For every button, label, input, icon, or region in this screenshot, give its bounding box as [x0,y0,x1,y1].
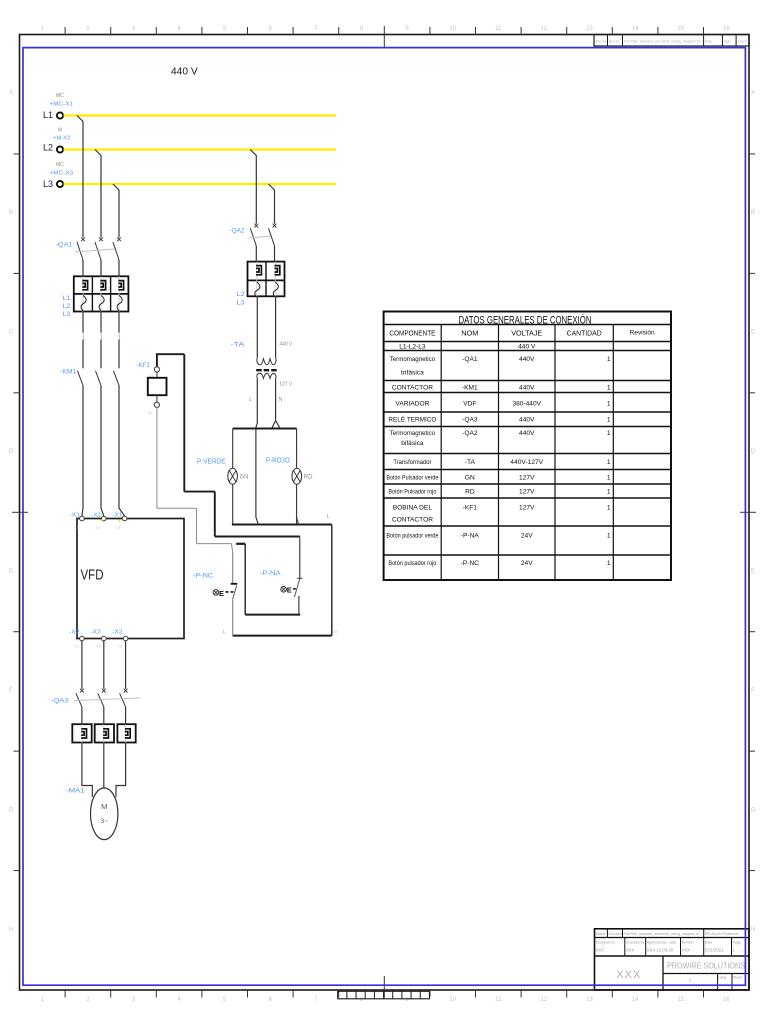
wire QA3 lever to thermal box [81,707,83,724]
svg-text:T2: T2 [96,644,101,649]
wire jog marker [82,333,85,340]
svg-text:C: C [751,330,756,336]
svg-text:1: 1 [607,459,611,466]
wire KF1 circuit: vertical x=184.3 [183,354,185,491]
svg-text:Date: Date [705,941,712,945]
svg-text:File/Title_samples_electrical_: File/Title_samples_electrical_wiring_dia… [624,932,700,936]
svg-text:N: N [334,629,337,634]
svg-text:H: H [9,927,13,933]
svg-text:-QA3: -QA3 [51,698,69,705]
svg-text:E: E [751,568,755,574]
svg-text:RELÉ TERMICO: RELÉ TERMICO [388,415,436,424]
QA2 thermal glyph [273,282,278,297]
svg-text:-X1: -X1 [70,513,81,519]
svg-text:MC: MC [56,162,64,168]
svg-text:E: E [287,586,292,595]
svg-text:C: C [9,330,14,336]
svg-text:5/31/2021: 5/31/2021 [705,948,724,953]
wire QA3 lever to thermal box [125,707,127,724]
svg-text:3~: 3~ [100,818,108,825]
svg-text:-X2: -X2 [90,630,101,636]
wire drop L2 to QA2 pole1 [250,150,256,224]
svg-text:L1-L2-L3: L1-L2-L3 [399,343,426,350]
QA3 lever [98,693,104,707]
svg-text:127 V: 127 V [279,382,293,388]
svg-text:PROWIRE SOLUTIONS: PROWIRE SOLUTIONS [667,962,745,971]
svg-text:RD: RD [465,488,475,495]
wire P-NA bottom terminal [298,596,300,615]
wire KM1 to VFD terminal [119,386,125,517]
wire drop L2 to QA1 pole2 [95,150,101,238]
svg-text:1: 1 [607,384,611,391]
terminal circle L2 [57,146,63,152]
bus wire L2 (yellow) [64,148,337,150]
svg-text:Rev-No: Rev-No [596,40,608,44]
svg-text:L: L [327,514,330,520]
svg-text:+MC-X1: +MC-X1 [50,102,74,108]
svg-text:trifásica: trifásica [401,370,424,377]
svg-text:VARIADOR: VARIADOR [395,400,429,407]
breaker QA1 lever [95,242,101,260]
svg-text:G: G [9,807,14,813]
svg-text:XXX: XXX [596,948,605,953]
center mark right [740,511,756,513]
svg-text:L2: L2 [43,143,53,153]
svg-text:1: 1 [607,505,611,512]
svg-text:-TA: -TA [231,342,246,349]
svg-text:13: 13 [586,26,593,32]
QA1 magnetic trip glyph [82,281,87,290]
svg-text:H: H [751,927,755,933]
svg-text:Check: Check [737,40,747,44]
svg-text:Botón pulsador verde: Botón pulsador verde [386,533,438,540]
wire N junction diagonal [276,421,280,429]
svg-text:NOM: NOM [461,329,478,338]
svg-text:1: 1 [607,560,611,567]
QA1 thermal glyph [81,295,86,310]
lamp circuit bottom rail (L) [232,524,332,526]
lamp branch right vertical [296,429,298,469]
svg-text:-X2: -X2 [69,630,80,636]
breaker QA2 box [248,262,285,297]
breaker QA1 contact x-mark pole at x=119 [117,237,121,241]
yellow stubs at VFD terminals [101,520,103,522]
svg-text:GN: GN [240,475,249,481]
svg-text:Rev-ch.: Rev-ch. [609,40,621,44]
svg-text:Revisión: Revisión [630,330,655,337]
QA3 contact x-mark [102,689,106,693]
VFD bottom terminal circles [80,636,85,641]
svg-text:-TA: -TA [465,459,476,466]
QA1 magnetic trip glyph [118,281,123,290]
svg-text:Botón pulsador rojo: Botón pulsador rojo [388,560,436,567]
breaker QA2 lever [269,228,275,246]
QA3 pole wire through box (grey) [125,724,127,742]
svg-text:-KM1: -KM1 [60,369,77,376]
svg-text:+MC-X3: +MC-X3 [50,171,74,177]
QA1 thermal glyph [117,295,122,310]
QA3 pole wire through box (grey) [81,724,83,742]
svg-text:440V: 440V [519,417,535,424]
svg-text:10: 10 [449,997,456,1003]
bottom return line [233,635,332,637]
svg-text:VOLTAJE: VOLTAJE [511,329,542,338]
wire QA1 to KM1 (upper) [118,312,120,333]
QA3 trip glyph [103,729,108,738]
center mark bottom [383,976,385,998]
svg-text:G: G [751,807,756,813]
svg-text:Termomagnetico: Termomagnetico [390,430,436,437]
svg-text:1: 1 [607,400,611,407]
svg-text:440 V: 440 V [518,343,536,350]
wire QA1 lever to box [118,260,120,276]
svg-text:440V: 440V [519,356,535,363]
svg-text:BOBINA DEL: BOBINA DEL [393,505,433,512]
svg-text:Termomagnetico: Termomagnetico [390,356,436,363]
wire loop bottom y=614.6 [245,614,300,616]
wire QA1 to KM1 (upper) [82,312,84,333]
svg-text:D: D [9,449,14,455]
svg-text:VFD: VFD [81,568,104,584]
svg-text:XXX: XXX [616,969,641,981]
wire A2 down (grey control wire) [156,407,158,508]
svg-text:COMPONENTE: COMPONENTE [389,329,435,338]
KM1 contact lever [78,371,84,386]
wire loop left vertical x=245.2 [244,544,246,615]
QA2 magnetic trip glyph [275,266,280,275]
svg-text:13: 13 [586,997,593,1003]
P-NA actuator dash [293,588,297,590]
svg-text:L3: L3 [116,525,121,530]
QA2 pole wire through box (grey) [256,262,258,297]
svg-text:14: 14 [632,997,639,1003]
svg-text:Transformador: Transformador [393,459,432,466]
QA3 trip glyph [81,729,86,738]
svg-text:Botón Pulsador rojo: Botón Pulsador rojo [388,488,436,495]
breaker QA1 lever [77,242,83,260]
svg-text:XXX 12-03-20: XXX 12-03-20 [647,948,674,953]
lamp RD (P-ROJO) [292,468,302,484]
QA1 mechanical coupling line [75,249,115,252]
revision strip top right [594,35,749,47]
wire drop L3 to QA2 pole2 [269,184,275,224]
VFD top terminal circles [80,516,85,521]
breaker QA2 contact x-mark [254,224,258,228]
svg-text:127V: 127V [519,474,535,481]
transformer core (dashed) [256,369,276,371]
QA2 magnetic trip glyph [256,266,261,275]
svg-text:L1: L1 [43,110,53,120]
svg-text:L2: L2 [237,291,246,298]
QA2 pole wire through box (grey) [274,262,276,297]
svg-text:-KF1: -KF1 [137,362,151,369]
wire QA1 to KM1 (lower) [82,340,84,369]
wire QA2 to transformer primary right [275,296,277,357]
QA1 pole wire through box (grey) [100,276,102,311]
svg-text:T1: T1 [75,644,80,649]
svg-text:Date: Date [705,40,712,44]
svg-text:P-VERDE: P-VERDE [197,459,226,466]
wire secondary L down (crosses lamp rail) [256,378,258,524]
svg-text:MC: MC [56,93,64,99]
transformer secondary winding [257,373,276,378]
svg-text:File/Title_samples_electrical_: File/Title_samples_electrical_wiring_dia… [624,40,701,44]
svg-text:Status: Status [596,932,606,936]
svg-text:14: 14 [632,26,639,32]
P-NC fixed contact T-bar [231,583,238,585]
svg-text:1: 1 [607,533,611,540]
wire P-NC bottom vertical [232,599,234,635]
wire QA2 to transformer primary left [256,296,258,357]
svg-text:CONTACTOR: CONTACTOR [392,516,433,523]
svg-text:11: 11 [495,26,502,32]
svg-text:440 V: 440 V [279,342,293,348]
wire P-NC top vertical (grey) [232,552,234,583]
wire QA1 to KM1 (lower) [100,340,102,369]
svg-text:1: 1 [607,417,611,424]
svg-text:440V: 440V [519,384,535,391]
svg-text:15: 15 [677,997,684,1003]
QA2 thermal glyph [255,282,260,297]
wire grey to P-NC [197,543,232,545]
svg-text:L1: L1 [75,525,80,530]
KM1 contact lever [114,371,120,386]
svg-text:DATOS GENERALES DE CONEXIÓN: DATOS GENERALES DE CONEXIÓN [459,313,592,326]
svg-text:16: 16 [723,997,730,1003]
wire QA1 to KM1 (upper) [100,312,102,333]
breaker QA1 contact x-mark pole at x=101 [99,237,103,241]
svg-text:-QA1: -QA1 [56,242,73,249]
junction bar at P-NC top [236,543,245,545]
svg-text:-QA3: -QA3 [462,417,478,424]
svg-text:M: M [58,128,62,134]
svg-text:12: 12 [541,26,548,32]
P-NC actuator dashed link [226,591,235,593]
svg-text:Sign: Sign [724,40,731,44]
svg-text:1: 1 [607,488,611,495]
jog RD branch into rail [296,516,299,524]
svg-text:XXX: XXX [626,948,635,953]
svg-text:F: F [9,688,13,694]
wire KF1 circuit: horizontal y=491.6 [184,491,215,493]
QA3 contact x-mark [80,689,84,693]
lamp GN (P-VERDE) [228,468,238,484]
wire QA1 lever to box [82,260,84,276]
folding scale bar bottom center [338,991,430,999]
P-NC mushroom actuator symbol [213,590,219,596]
svg-text:127V: 127V [519,505,535,512]
svg-text:440V-127V: 440V-127V [510,459,543,466]
svg-text:E: E [9,568,13,574]
QA3 contact x-mark [124,689,128,693]
svg-text:Approved by - date: Approved by - date [647,941,677,945]
svg-text:L2: L2 [96,525,101,530]
svg-text:10: 10 [449,26,456,32]
QA3 lever [76,693,82,707]
svg-text:bifásica: bifásica [401,440,424,447]
svg-text:-QA2: -QA2 [462,430,478,437]
svg-text:24V: 24V [521,560,533,567]
QA3 lever [120,693,126,707]
svg-text:1: 1 [607,430,611,437]
svg-text:N: N [279,397,283,403]
svg-text:127V: 127V [519,488,535,495]
svg-text:-QA2: -QA2 [230,228,245,235]
svg-text:Botón Pulsador verde: Botón Pulsador verde [386,474,438,481]
title block [595,929,750,990]
KF1 terminal A1 circle [154,367,159,372]
svg-text:B: B [9,210,13,216]
wire jog marker [100,333,103,340]
terminal circle L3 [57,181,63,187]
lamp branch left vertical [232,429,234,469]
svg-text:440V: 440V [519,430,535,437]
svg-text:A: A [751,91,755,97]
coil KF1 box [148,378,167,395]
lamp circuit top rail (N) [233,428,297,430]
KM1 contact lever [96,371,102,386]
svg-text:-X1: -X1 [91,513,102,519]
wire QA2 lever to box [255,246,257,262]
svg-text:-KF1: -KF1 [463,505,478,512]
svg-text:Number: Number [682,941,695,945]
svg-text:L1: L1 [63,295,72,302]
svg-text:16: 16 [723,26,730,32]
QA3 coupling line [74,698,140,701]
wire A2 run right (grey) [157,507,197,509]
QA1 pole wire through box (grey) [118,276,120,311]
wire jog marker [118,333,121,340]
wire grey down at x=196.5 [196,508,198,543]
svg-text:L2: L2 [63,303,72,310]
svg-text:Doc-kind: Doc-kind [609,932,622,936]
svg-text:15: 15 [677,26,684,32]
P-NA fixed contact tick [297,577,302,579]
wire QA1 lever to box [100,260,102,276]
svg-text:Page: Page [733,941,741,945]
wire KF1 A1 up and over [157,354,184,366]
svg-text:M: M [101,802,107,811]
variador VFD box [77,519,184,639]
breaker QA1 contact x-mark pole at x=83 [81,237,85,241]
breaker QA1 lever [113,242,119,260]
wire KM1 to VFD terminal [101,386,104,517]
svg-text:L3: L3 [237,300,246,307]
P-NA mushroom actuator symbol [281,587,287,593]
svg-text:B: B [751,210,755,216]
QA1 pole wire through box (grey) [82,276,84,311]
QA3 pole wire through box (grey) [103,724,105,742]
wire A1 to coil [156,372,158,378]
svg-text:-P-NC: -P-NC [193,573,213,580]
svg-text:A2: A2 [148,410,154,415]
svg-text:GN: GN [465,474,475,481]
svg-text:-X2: -X2 [112,630,123,636]
svg-text:L: L [249,397,252,403]
svg-text:-QA1: -QA1 [462,356,478,363]
svg-text:L3: L3 [43,179,53,189]
ruler ticks left/right [14,153,20,155]
QA1 thermal glyph [99,295,104,310]
svg-text:P-ROJO: P-ROJO [266,458,290,465]
svg-text:D: D [751,449,756,455]
svg-text:-P-NA: -P-NA [461,533,480,540]
center mark left [12,511,28,513]
breaker QA1 thermal-magnetic box [74,276,129,311]
wire QA1 to KM1 (lower) [118,340,120,369]
svg-text:440 V: 440 V [171,67,198,78]
svg-text:Lang.: Lang. [718,976,727,980]
svg-text:CONTACTOR: CONTACTOR [392,384,433,391]
wire L rail down right side [331,525,333,636]
wires QA3 to motor [82,743,92,798]
data table DATOS GENERALES DE CONEXION [384,312,671,581]
QA1 magnetic trip glyph [100,281,105,290]
ruler ticks top/bottom [64,27,66,35]
svg-text:Sheet: Sheet [733,976,742,980]
wire QA2 lever to box [274,246,276,262]
bus wire L1 (yellow) [64,114,337,116]
bus wire L3 (yellow) [64,183,337,185]
svg-text:-MA1: -MA1 [66,788,85,795]
breaker QA2 lever [250,228,256,246]
svg-text:24V: 24V [521,533,533,540]
center mark top [383,26,385,48]
svg-text:+M-X2: +M-X2 [53,136,71,142]
svg-text:380-440V: 380-440V [512,400,541,407]
wire drop L3 to QA1 pole3 [113,184,119,238]
QA3 thermal boxes [72,724,91,742]
wire drop L1 to QA1 pole1 [77,116,83,238]
svg-text:RD: RD [304,475,313,481]
KF1 terminal A2 circle [154,402,159,407]
transformer primary winding [257,358,276,365]
QA2 coupling line [249,236,271,238]
svg-text:CANTIDAD: CANTIDAD [567,329,602,338]
wire P-NA top terminal [299,537,301,579]
svg-text:Checked by: Checked by [626,941,645,945]
svg-text:12: 12 [541,997,548,1003]
wire coil to A2 [156,395,158,402]
svg-text:-P-NC: -P-NC [461,560,480,567]
P-NA lever [294,578,300,597]
wire KF1 circuit: vertical x=214.8 [214,492,216,537]
svg-text:11: 11 [495,997,502,1003]
svg-text:1: 1 [607,474,611,481]
svg-text:EPLAN-No./Reference: EPLAN-No./Reference [705,932,739,936]
wire rail to P-NA y=536.5 [215,536,300,538]
svg-text:A: A [9,91,13,97]
wire QA3 lever to thermal box [103,707,105,724]
svg-text:-KM1: -KM1 [462,384,478,391]
svg-text:1: 1 [607,356,611,363]
svg-text:VDF: VDF [463,400,476,407]
wires VFD to QA3 [81,641,83,689]
wire KM1 to VFD terminal [82,386,83,517]
svg-text:L3: L3 [63,311,72,318]
svg-text:Designed by: Designed by [596,941,616,945]
wire secondary N down to lamp rail [272,378,276,428]
svg-text:-X1: -X1 [112,513,123,519]
svg-text:T3: T3 [118,644,123,649]
QA3 trip glyph [125,729,130,738]
svg-text:-P-NA: -P-NA [260,570,281,577]
motor M 3~ [91,788,118,840]
P-NC lever [233,585,237,599]
wire grey jog into P-NC [231,544,232,552]
svg-text:E: E [219,589,224,598]
svg-text:XXX: XXX [682,948,691,953]
